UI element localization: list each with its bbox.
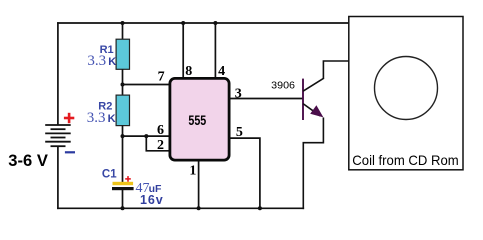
svg-text:7: 7 [158, 69, 165, 84]
node A junction R1 R2 pin7 [121, 83, 125, 87]
transistor emitter stroke [303, 104, 320, 116]
wire pin 5 elbow to ground [230, 138, 260, 208]
svg-text:555: 555 [188, 113, 206, 128]
wire R2 bottom to capacitor C1 [122, 126, 124, 183]
svg-text:Coil from CD Rom: Coil from CD Rom [352, 152, 458, 168]
svg-text:16v: 16v [140, 193, 164, 207]
capacitor C1 negative plate [112, 187, 134, 190]
transistor Q1 3906 base bar [302, 79, 304, 120]
wire bottom ground bus [57, 207, 304, 209]
svg-text:6: 6 [157, 123, 164, 138]
node junction top R1 [121, 21, 125, 25]
battery 3-6V plates [45, 125, 70, 146]
wire battery positive riser [57, 22, 59, 125]
wire R1 top drop [122, 23, 124, 40]
svg-text:K: K [108, 56, 116, 68]
capacitor polarity mark red plus [125, 176, 131, 182]
wire pin 8 drop [182, 23, 184, 78]
capacitor C1 positive plate [113, 182, 134, 185]
svg-text:5: 5 [236, 125, 243, 140]
coil circle [375, 57, 438, 120]
wire pin 4 drop [214, 23, 216, 78]
svg-text:4: 4 [218, 64, 225, 79]
coil box outline [349, 17, 463, 170]
node junction pin5 ground [258, 206, 262, 210]
wire pin 2 elbow [146, 136, 169, 151]
svg-text:8: 8 [185, 64, 192, 79]
transistor collector stroke [303, 78, 324, 91]
wire pin 3 to transistor base [230, 98, 304, 100]
node junction top pin8 [181, 21, 185, 25]
svg-text:3.3: 3.3 [87, 53, 106, 69]
wire emitter drop to ground [303, 118, 323, 210]
battery positive polarity mark [64, 113, 74, 123]
svg-text:3906: 3906 [271, 80, 295, 92]
svg-text:C1: C1 [102, 168, 117, 180]
svg-text:K: K [108, 113, 116, 125]
svg-text:3-6 V: 3-6 V [8, 152, 48, 170]
resistor R2 [116, 95, 129, 126]
wire top supply bus [57, 22, 349, 24]
op-amp timer IC U1 555 body [170, 78, 229, 160]
node B junction R2 pin6 [121, 134, 125, 138]
wire C1 bottom drop [122, 190, 124, 208]
wire battery negative drop [57, 146, 59, 209]
battery negative polarity mark [65, 151, 75, 153]
resistor R1 [116, 39, 129, 69]
svg-text:3: 3 [235, 86, 242, 101]
wire pin 7 [123, 84, 170, 86]
node junction pin1 ground [197, 206, 201, 210]
svg-text:1: 1 [189, 164, 196, 179]
node junction C1 ground [121, 206, 125, 210]
node junction pin2 branch [144, 134, 148, 138]
svg-text:2: 2 [157, 138, 164, 153]
wire pin 1 drop [198, 161, 200, 209]
svg-text:3.3: 3.3 [87, 110, 106, 126]
node junction top pin4 [213, 21, 217, 25]
wire pin 6 [123, 135, 170, 137]
transistor emitter arrowhead [310, 105, 323, 117]
wire collector riser to coil [323, 61, 348, 79]
wire R1 to R2 link [122, 69, 124, 95]
